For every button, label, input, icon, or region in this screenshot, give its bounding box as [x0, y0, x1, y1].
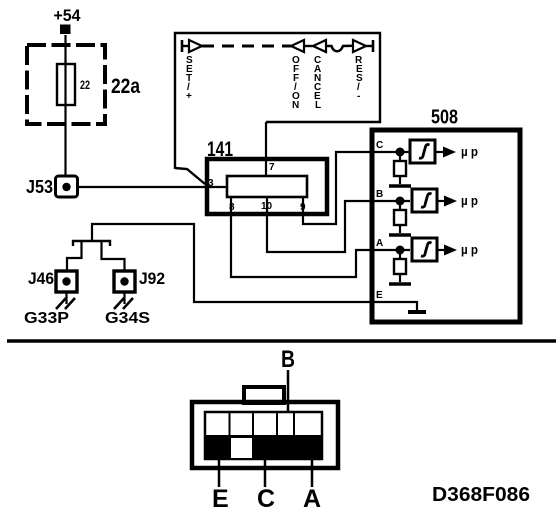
wire splice to J46: [67, 242, 82, 271]
schmitt trigger B: [412, 189, 437, 212]
svg-text:D368F086: D368F086: [432, 484, 530, 506]
wire pin 9 to 508 pin C: [303, 152, 373, 224]
input wire C with junction: [374, 148, 410, 157]
connector cavity frame: [205, 412, 322, 459]
wire switch pack to 141 pin 3 (diagonal): [175, 168, 205, 184]
fuse holder box 22a: [27, 45, 140, 124]
svg-text:22a: 22a: [111, 75, 140, 98]
inner block of 141: [227, 176, 307, 197]
connector J92: [114, 269, 165, 292]
pin B label and leader: [281, 346, 295, 442]
wire through fuse down to J53: [64, 60, 66, 177]
pin C label and leader: [257, 459, 275, 513]
connector housing: [192, 402, 338, 468]
schmitt trigger C: [410, 140, 435, 163]
svg-text:µ p: µ p: [461, 242, 478, 257]
ground in 508: [408, 310, 426, 314]
svg-text:G34S: G34S: [105, 310, 150, 327]
link wire between switches: [304, 45, 313, 47]
spring squiggle: [326, 46, 353, 51]
switch SET/+: [182, 40, 202, 102]
separator line: [7, 339, 556, 343]
ground wire splice to 508 pin E: [92, 224, 373, 302]
schmitt trigger A: [412, 238, 437, 261]
svg-text:N: N: [292, 100, 299, 111]
svg-text:E: E: [376, 290, 383, 301]
resistor C rail bar: [389, 184, 411, 188]
svg-text:J46: J46: [28, 269, 54, 288]
arrow to microprocessor C: [435, 147, 456, 158]
pin E label and leader: [212, 459, 229, 513]
splice bracket: [73, 241, 110, 246]
svg-text:-: -: [357, 91, 360, 102]
wire E to internal ground: [374, 302, 417, 311]
svg-text:µ p: µ p: [461, 193, 478, 208]
ground G34S: [105, 292, 150, 327]
ground G33P: [24, 292, 75, 327]
mechanical coupling dashed line: [202, 45, 291, 48]
wire pin 8 to 508 pin A: [231, 197, 373, 277]
svg-text:L: L: [315, 100, 321, 111]
svg-text:G33P: G33P: [24, 310, 69, 327]
svg-text:A: A: [303, 485, 321, 513]
wire J53 to 141 pin 3: [77, 186, 227, 188]
svg-text:C: C: [376, 140, 383, 151]
pull-down resistor A: [394, 250, 406, 282]
connector J53: [26, 176, 78, 197]
wire switch pack to 141 pin 7: [265, 122, 267, 176]
input wire A with junction: [374, 246, 410, 255]
svg-text:B: B: [281, 346, 295, 373]
svg-text:+54: +54: [54, 6, 82, 25]
svg-text:µ p: µ p: [461, 144, 478, 159]
cavity dividers: [230, 412, 295, 436]
wire +54 to fuse box 22a: [64, 35, 66, 64]
switch RES/-: [353, 40, 373, 102]
switch pack box (cruise control switches): [175, 33, 380, 169]
svg-text:E: E: [212, 485, 229, 513]
svg-text:A: A: [376, 238, 383, 249]
switch CANCEL: [313, 40, 326, 111]
input wire B with junction: [374, 197, 410, 206]
pull-down resistor B: [394, 201, 406, 233]
arrow to microprocessor A: [437, 245, 457, 256]
filled contact row: [205, 435, 322, 460]
resistor B rail bar: [389, 233, 411, 237]
wire pin 10 to 508 pin B: [267, 197, 373, 252]
control unit 508: [372, 107, 520, 323]
svg-text:J53: J53: [26, 177, 53, 197]
pull-down resistor C: [394, 152, 406, 184]
control module 141: [207, 138, 327, 214]
switch OFF/ON: [291, 40, 304, 111]
svg-text:B: B: [376, 189, 383, 200]
resistor A rail bar: [389, 282, 411, 286]
fuse 22: [57, 64, 90, 105]
arrow to microprocessor B: [437, 196, 457, 207]
svg-text:J92: J92: [139, 269, 165, 288]
empty cavity in contact row: [231, 438, 252, 458]
svg-text:7: 7: [269, 162, 275, 173]
wire splice to J92: [102, 242, 125, 271]
svg-text:508: 508: [431, 107, 458, 129]
connector J46: [28, 269, 77, 292]
pin A label and leader: [303, 459, 321, 513]
svg-text:C: C: [257, 485, 275, 513]
terminal +54: [54, 6, 82, 34]
connector latch tab: [244, 387, 284, 403]
svg-text:3: 3: [208, 178, 214, 189]
svg-text:+: +: [186, 91, 192, 102]
svg-text:22: 22: [80, 78, 90, 92]
